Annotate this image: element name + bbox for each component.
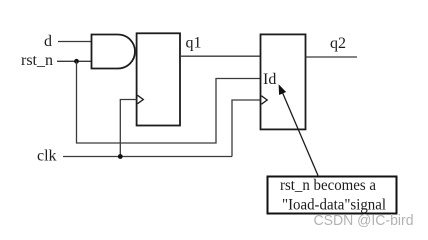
annotation box <box>268 177 397 214</box>
svg-text:rst_n becomes a: rst_n becomes a <box>280 177 376 194</box>
node junction on rst_n <box>74 59 79 64</box>
wire FF1 clock <box>120 100 136 156</box>
flip-flop FF2 clock triangle <box>261 96 267 104</box>
svg-text:q2: q2 <box>330 35 346 52</box>
wire clk to FF2 clock <box>232 100 261 157</box>
annotation arrowhead <box>279 84 287 95</box>
node junction on clk <box>118 154 123 159</box>
wire q1 to FF2 d <box>180 55 261 57</box>
flip-flop FF1 clock triangle <box>138 95 144 103</box>
svg-text:Id: Id <box>263 71 276 88</box>
svg-text:clk: clk <box>37 148 57 165</box>
wire d input <box>58 41 92 43</box>
wire rst_n input <box>57 60 92 62</box>
svg-text:"Ioad-data"signal: "Ioad-data"signal <box>282 196 386 213</box>
svg-text:q1: q1 <box>186 35 202 52</box>
and-gate U1 <box>92 35 136 69</box>
flip-flop FF1 body <box>137 33 180 125</box>
svg-text:CSDN @IC-bird: CSDN @IC-bird <box>314 212 414 229</box>
annotation arrow to Id <box>281 88 319 176</box>
flip-flop FF2 body <box>261 34 306 129</box>
wire rst_n to FF2 ld <box>77 61 261 143</box>
svg-text:rst_n: rst_n <box>21 52 53 69</box>
wire q2 output <box>306 56 358 58</box>
svg-text:d: d <box>44 33 52 50</box>
wire clk <box>63 156 232 158</box>
